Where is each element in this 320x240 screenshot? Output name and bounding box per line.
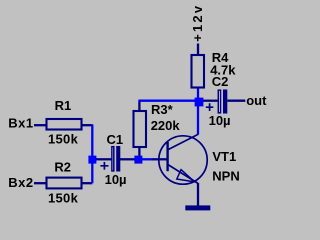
wire +12v to R4 bbox=[197, 44, 199, 56]
wire Bx1 to R1 bbox=[34, 124, 46, 126]
svg-text:C1: C1 bbox=[107, 132, 124, 147]
svg-text:VT1: VT1 bbox=[212, 149, 236, 164]
wire collector net horizontal (bright) bbox=[138, 100, 196, 102]
node J3 (R4/R3/C2/collector) bbox=[195, 98, 204, 107]
wire J3 to collector (bright) bbox=[197, 106, 199, 135]
transistor VT1 emitter line bbox=[168, 164, 198, 183]
wire emitter to ground bbox=[197, 183, 199, 206]
transistor VT1 collector line bbox=[168, 134, 198, 150]
transistor VT1 base bar bbox=[166, 142, 168, 171]
capacitor C2 plate - (solid) bbox=[223, 90, 227, 114]
node J2 (R3/base) bbox=[134, 156, 142, 164]
capacitor C2 plate + (hollow) bbox=[218, 90, 220, 113]
svg-text:out: out bbox=[246, 93, 267, 108]
wire Bx2 to R2 bbox=[34, 182, 46, 184]
wire R4 bottom to J3 (bright) bbox=[197, 88, 199, 99]
svg-text:10µ: 10µ bbox=[105, 172, 127, 187]
wire R1/R2 junction vertical (bright) bbox=[91, 124, 93, 183]
svg-text:R1: R1 bbox=[55, 98, 72, 113]
capacitor C2 plus sign bbox=[206, 103, 214, 111]
svg-text:150k: 150k bbox=[48, 131, 79, 146]
wire J1 to C1 left bbox=[96, 158, 112, 160]
svg-text:150k: 150k bbox=[48, 190, 79, 205]
resistor R3 bbox=[134, 111, 147, 147]
wire C1 right to J2 bbox=[120, 158, 135, 160]
svg-text:220k: 220k bbox=[151, 118, 181, 133]
wire R3 top stub bbox=[138, 101, 140, 111]
transistor VT1 emitter arrow bbox=[177, 170, 195, 182]
wire base lead bbox=[152, 158, 167, 160]
resistor R1 bbox=[47, 119, 82, 130]
transistor VT1 body circle bbox=[159, 136, 207, 184]
svg-text:Bx1: Bx1 bbox=[8, 115, 33, 130]
svg-text:NPN: NPN bbox=[212, 169, 239, 184]
capacitor C1 plus sign bbox=[100, 162, 108, 170]
svg-text:C2: C2 bbox=[212, 74, 229, 89]
wire J2 to base (bright) bbox=[142, 158, 153, 160]
capacitor C1 plate - (solid) bbox=[116, 146, 120, 172]
capacitor C1 plate + (hollow) bbox=[112, 147, 114, 171]
ground bbox=[185, 205, 210, 210]
svg-text:10µ: 10µ bbox=[209, 113, 231, 128]
wire C2 to out bbox=[227, 100, 245, 102]
wire R2 right stub bbox=[82, 182, 93, 184]
svg-text:R2: R2 bbox=[54, 159, 71, 174]
resistor R2 bbox=[47, 178, 82, 189]
wire R3 bottom stub bbox=[138, 147, 140, 157]
svg-text:R3*: R3* bbox=[151, 102, 174, 117]
wire R1 right stub bbox=[82, 124, 93, 126]
resistor R4 bbox=[192, 55, 205, 88]
svg-text:+12v: +12v bbox=[190, 4, 205, 42]
node J1 (R1/R2/C1) bbox=[88, 156, 96, 164]
svg-text:Bx2: Bx2 bbox=[8, 175, 33, 190]
wire J3 to C2 bbox=[203, 100, 219, 102]
